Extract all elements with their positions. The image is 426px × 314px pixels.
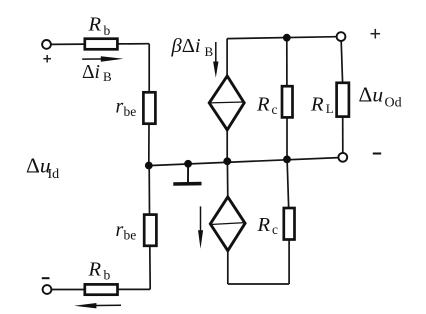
- svg-text:R: R: [88, 258, 102, 280]
- svg-text:Id: Id: [48, 167, 60, 182]
- controlled source G1 (upper diamond): [209, 76, 244, 130]
- svg-text:c: c: [272, 222, 278, 237]
- resistor RL: [337, 83, 349, 117]
- wire rbe2 to bottom rail: [149, 245, 151, 289]
- resistor rbe (lower): [144, 215, 156, 246]
- svg-text:c: c: [272, 102, 278, 117]
- wire RL top from terminal: [341, 41, 342, 84]
- node Rc/mid-rail: [283, 156, 291, 164]
- wire mid rail (slanted): [149, 158, 339, 166]
- svg-text:R: R: [256, 93, 270, 115]
- arrow lower source current (down): [198, 206, 203, 248]
- svg-text:R: R: [310, 94, 324, 116]
- terminal output +: [337, 32, 346, 41]
- svg-text:Δi: Δi: [82, 62, 100, 83]
- svg-text:Od: Od: [385, 96, 402, 111]
- svg-text:b: b: [104, 23, 111, 38]
- arrow current dir (bottom, left-pointing): [74, 303, 121, 308]
- svg-text:r: r: [116, 219, 124, 241]
- resistor Rc (upper): [282, 86, 293, 117]
- wire bottom terminal to Rb2: [52, 289, 85, 291]
- node Rc1/top-rail: [283, 34, 291, 42]
- node junction dots: [145, 34, 291, 170]
- wire G2 bottom down: [227, 250, 229, 284]
- resistor Rc (lower): [284, 208, 295, 240]
- controlled source G2 (lower diamond): [210, 197, 245, 251]
- svg-text:R: R: [88, 14, 102, 36]
- wire rbe1 to mid node: [148, 123, 150, 166]
- svg-text:B: B: [205, 44, 214, 59]
- polarity + (output): [371, 29, 381, 39]
- svg-text:r: r: [116, 96, 124, 118]
- polarity - (input): [42, 277, 50, 279]
- terminal input +: [42, 40, 51, 49]
- svg-text:b: b: [104, 268, 111, 283]
- wire mid node down to rbe2: [148, 166, 150, 216]
- wire mid rail down to Rc2: [287, 159, 289, 208]
- ground: [173, 164, 201, 184]
- wire top rail (slanted): [227, 37, 337, 39]
- wire Rb to node at x=149: [118, 43, 150, 45]
- wire input top-left to Rb: [51, 43, 85, 45]
- polarity + (input): [43, 55, 51, 63]
- resistor rbe (upper): [143, 92, 155, 123]
- resistor Rb (bottom): [85, 284, 118, 294]
- wire Rc2 bottom up: [288, 239, 290, 284]
- node G-sources/mid-rail: [223, 157, 231, 165]
- svg-text:Δu: Δu: [359, 83, 384, 107]
- wire Rc1 top: [286, 38, 288, 87]
- node ground tap: [184, 160, 192, 168]
- wire RL bottom to terminal: [342, 116, 344, 153]
- svg-text:L: L: [326, 101, 334, 116]
- node rbe/mid-rail: [145, 162, 153, 170]
- arrow beta-current (down): [213, 42, 218, 78]
- terminal output -: [338, 153, 347, 162]
- wire Rc1 bottom to mid rail: [286, 117, 288, 160]
- polarity - (output): [373, 153, 381, 155]
- arrow current dir (top, right-pointing): [82, 56, 123, 62]
- wire top rail corner down to source G1: [226, 39, 228, 77]
- svg-text:B: B: [103, 69, 112, 84]
- wire G1 bottom to mid rail: [226, 129, 228, 161]
- svg-text:R: R: [257, 214, 271, 236]
- wire bottom rail right segment: [118, 288, 151, 290]
- terminal input -: [43, 285, 52, 294]
- resistor Rb (top): [85, 39, 118, 50]
- wire mid rail to source G2: [226, 161, 228, 198]
- svg-text:be: be: [124, 228, 137, 243]
- wire vertical down to rbe1: [148, 44, 150, 93]
- wire bottom link G2 to Rc2: [228, 283, 289, 285]
- svg-text:βΔi: βΔi: [171, 35, 201, 57]
- svg-text:be: be: [124, 104, 137, 119]
